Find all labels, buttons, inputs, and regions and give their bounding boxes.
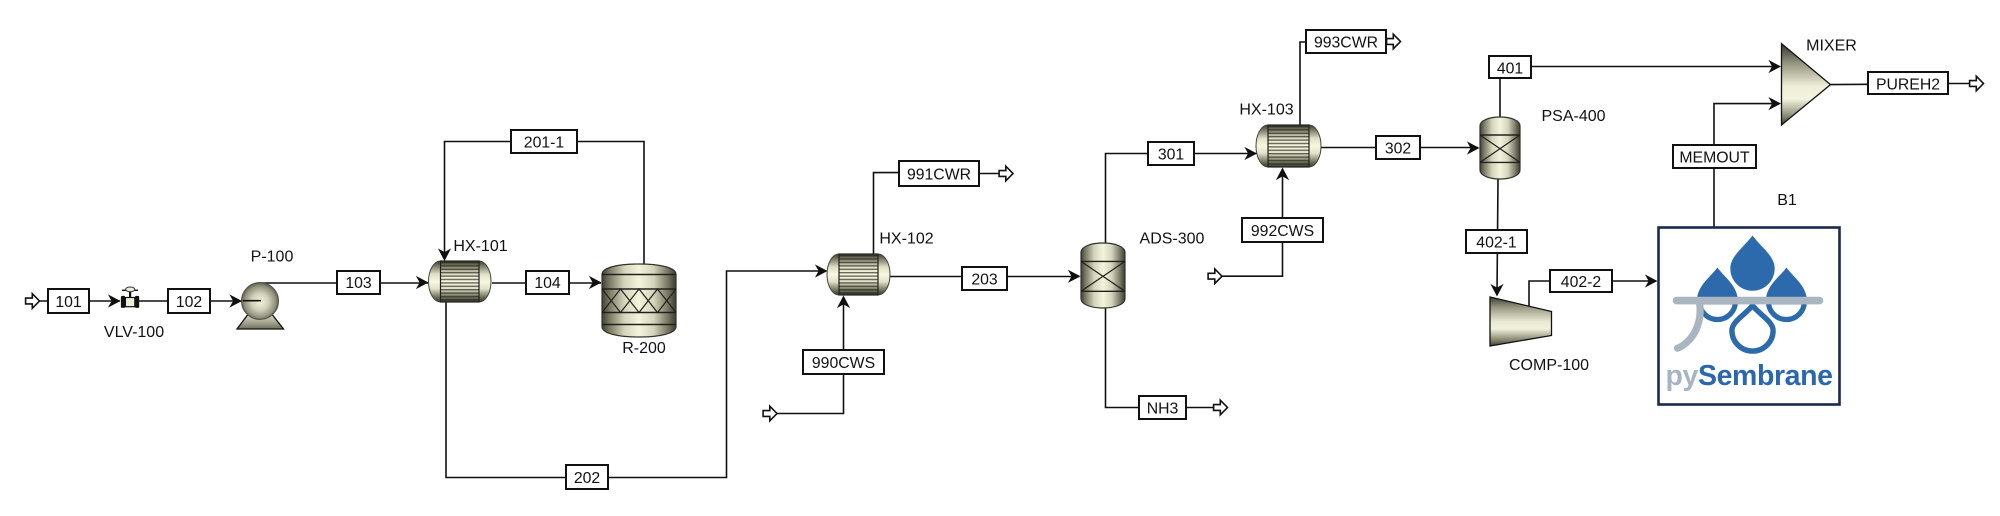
- svg-text:NH3: NH3: [1147, 401, 1179, 418]
- svg-text:HX-101: HX-101: [453, 238, 507, 255]
- svg-text:990CWS: 990CWS: [812, 355, 875, 372]
- svg-text:HX-102: HX-102: [879, 231, 933, 248]
- svg-text:402-2: 402-2: [1561, 274, 1601, 291]
- svg-text:402-1: 402-1: [1476, 235, 1517, 252]
- svg-text:201-1: 201-1: [524, 135, 565, 152]
- svg-text:101: 101: [55, 294, 82, 311]
- svg-text:PSA-400: PSA-400: [1541, 108, 1605, 125]
- svg-text:203: 203: [971, 272, 998, 289]
- svg-text:102: 102: [176, 294, 202, 311]
- svg-text:HX-103: HX-103: [1239, 102, 1293, 119]
- svg-text:401: 401: [1497, 61, 1524, 78]
- svg-text:MEMOUT: MEMOUT: [1679, 150, 1750, 167]
- svg-text:202: 202: [574, 470, 600, 487]
- svg-text:302: 302: [1385, 141, 1411, 158]
- svg-text:PUREH2: PUREH2: [1876, 77, 1940, 94]
- svg-text:R-200: R-200: [622, 340, 666, 357]
- svg-text:pySembrane: pySembrane: [1666, 360, 1833, 392]
- svg-text:301: 301: [1158, 147, 1185, 164]
- svg-text:MIXER: MIXER: [1806, 38, 1857, 55]
- svg-text:COMP-100: COMP-100: [1509, 357, 1589, 374]
- svg-text:104: 104: [534, 275, 561, 292]
- svg-text:103: 103: [345, 275, 372, 292]
- svg-text:B1: B1: [1777, 192, 1797, 209]
- svg-text:992CWS: 992CWS: [1251, 223, 1314, 240]
- svg-text:991CWR: 991CWR: [907, 167, 971, 184]
- svg-text:ADS-300: ADS-300: [1140, 231, 1205, 248]
- svg-text:993CWR: 993CWR: [1314, 35, 1378, 52]
- svg-text:VLV-100: VLV-100: [104, 324, 164, 341]
- svg-text:P-100: P-100: [251, 249, 294, 266]
